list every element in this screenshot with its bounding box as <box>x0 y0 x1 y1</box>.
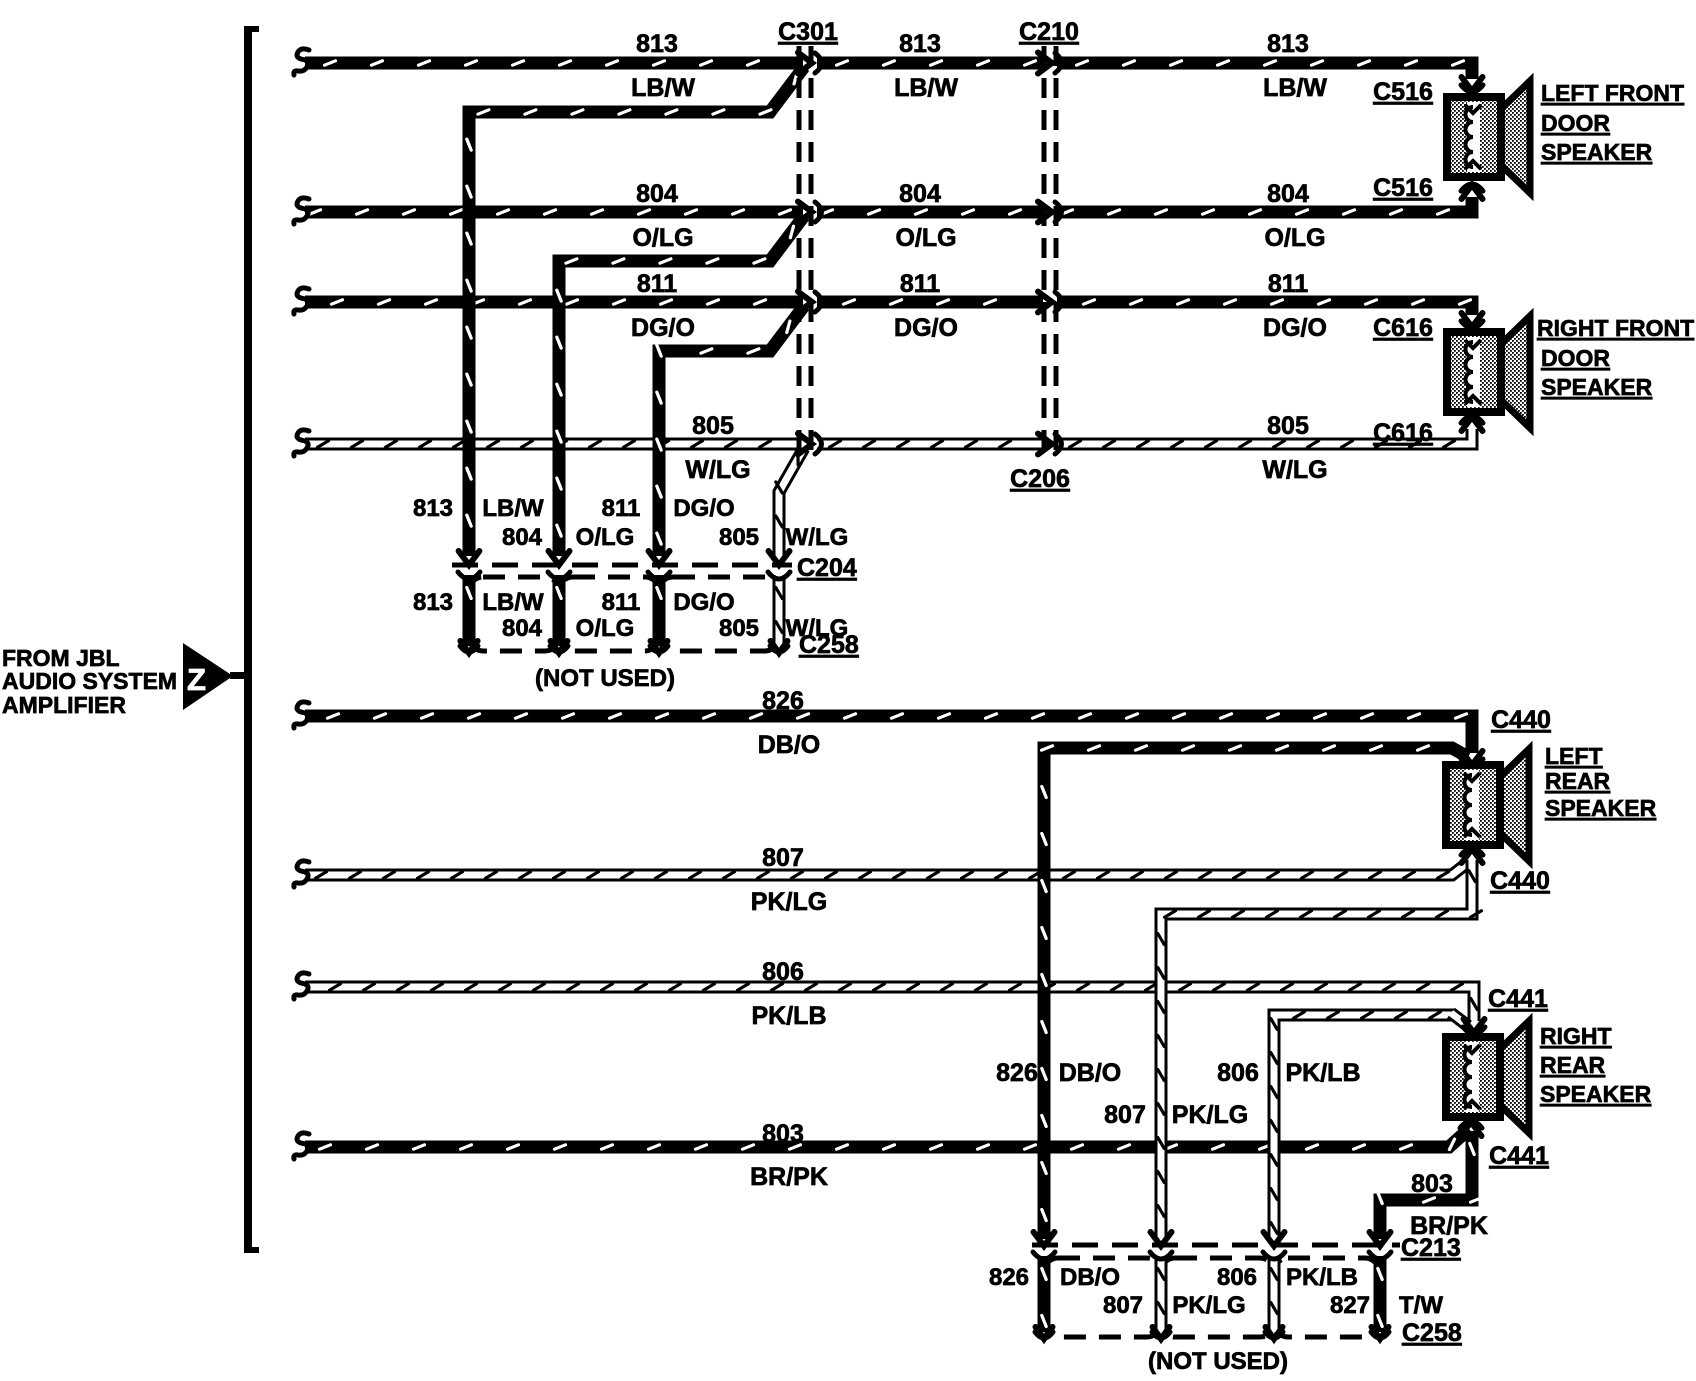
svg-text:T/W: T/W <box>1399 1292 1443 1319</box>
svg-text:LB/W: LB/W <box>894 74 958 102</box>
svg-text:(NOT USED): (NOT USED) <box>535 665 675 692</box>
svg-text:C440: C440 <box>1490 867 1550 895</box>
svg-text:REAR: REAR <box>1545 768 1611 794</box>
svg-text:DG/O: DG/O <box>673 495 734 522</box>
svg-text:SPEAKER: SPEAKER <box>1541 139 1653 165</box>
svg-text:O/LG: O/LG <box>895 224 956 252</box>
svg-text:811: 811 <box>602 495 641 522</box>
svg-text:807: 807 <box>762 844 804 872</box>
svg-text:C210: C210 <box>1019 18 1079 46</box>
svg-text:PK/LG: PK/LG <box>751 888 827 916</box>
svg-text:O/LG: O/LG <box>576 524 635 551</box>
svg-text:826: 826 <box>989 1264 1029 1291</box>
svg-text:813: 813 <box>636 30 678 58</box>
svg-text:804: 804 <box>502 615 543 642</box>
svg-text:806: 806 <box>1217 1264 1257 1291</box>
svg-text:813: 813 <box>899 30 941 58</box>
svg-text:PK/LB: PK/LB <box>752 1002 827 1030</box>
svg-text:LB/W: LB/W <box>1263 74 1327 102</box>
svg-text:PK/LB: PK/LB <box>1286 1059 1361 1087</box>
svg-text:O/LG: O/LG <box>1264 224 1325 252</box>
svg-text:DB/O: DB/O <box>1060 1264 1120 1291</box>
svg-text:DG/O: DG/O <box>894 314 958 342</box>
svg-text:803: 803 <box>762 1120 804 1148</box>
svg-text:BR/PK: BR/PK <box>750 1163 828 1191</box>
svg-text:827: 827 <box>1330 1292 1370 1319</box>
svg-text:DB/O: DB/O <box>1059 1059 1122 1087</box>
svg-text:C204: C204 <box>797 554 857 582</box>
svg-text:DOOR: DOOR <box>1541 110 1610 136</box>
svg-text:DG/O: DG/O <box>1263 314 1327 342</box>
svg-text:W/LG: W/LG <box>685 456 750 484</box>
svg-text:806: 806 <box>762 958 804 986</box>
svg-text:811: 811 <box>1268 270 1308 298</box>
svg-text:AMPLIFIER: AMPLIFIER <box>2 692 126 718</box>
svg-text:C258: C258 <box>1402 1319 1462 1347</box>
svg-text:DG/O: DG/O <box>631 314 695 342</box>
svg-text:811: 811 <box>900 270 940 298</box>
svg-text:DG/O: DG/O <box>673 589 734 616</box>
svg-text:C616: C616 <box>1373 419 1433 447</box>
svg-text:DB/O: DB/O <box>758 731 821 759</box>
svg-text:804: 804 <box>1267 180 1309 208</box>
svg-text:C616: C616 <box>1373 314 1433 342</box>
svg-text:806: 806 <box>1217 1059 1259 1087</box>
svg-text:AUDIO SYSTEM: AUDIO SYSTEM <box>2 668 177 694</box>
svg-text:SPEAKER: SPEAKER <box>1541 374 1653 400</box>
svg-text:SPEAKER: SPEAKER <box>1545 795 1657 821</box>
svg-text:804: 804 <box>899 180 941 208</box>
svg-text:W/LG: W/LG <box>786 524 849 551</box>
svg-text:PK/LB: PK/LB <box>1286 1264 1358 1291</box>
svg-text:805: 805 <box>1267 412 1309 440</box>
svg-text:C258: C258 <box>799 631 859 659</box>
svg-text:813: 813 <box>413 495 453 522</box>
svg-text:803: 803 <box>1411 1170 1453 1198</box>
svg-text:805: 805 <box>692 412 734 440</box>
svg-text:C206: C206 <box>1010 465 1070 493</box>
svg-text:PK/LG: PK/LG <box>1172 1292 1245 1319</box>
svg-text:DOOR: DOOR <box>1541 345 1610 371</box>
svg-text:813: 813 <box>413 589 453 616</box>
svg-text:LB/W: LB/W <box>482 495 544 522</box>
svg-text:C440: C440 <box>1491 706 1551 734</box>
svg-text:O/LG: O/LG <box>632 224 693 252</box>
svg-text:Z: Z <box>187 662 206 697</box>
svg-text:805: 805 <box>719 524 759 551</box>
svg-text:C213: C213 <box>1401 1234 1461 1262</box>
svg-text:805: 805 <box>719 615 759 642</box>
svg-text:RIGHT: RIGHT <box>1540 1023 1612 1049</box>
svg-text:804: 804 <box>502 524 543 551</box>
svg-text:C441: C441 <box>1488 985 1548 1013</box>
svg-text:C516: C516 <box>1373 174 1433 202</box>
svg-text:(NOT USED): (NOT USED) <box>1148 1348 1288 1375</box>
svg-text:813: 813 <box>1267 30 1309 58</box>
svg-text:LEFT: LEFT <box>1545 743 1603 769</box>
svg-text:RIGHT FRONT: RIGHT FRONT <box>1537 315 1694 341</box>
svg-text:807: 807 <box>1103 1292 1143 1319</box>
svg-text:807: 807 <box>1104 1101 1146 1129</box>
svg-text:811: 811 <box>637 270 677 298</box>
svg-text:W/LG: W/LG <box>1262 456 1327 484</box>
svg-text:PK/LG: PK/LG <box>1172 1101 1248 1129</box>
svg-text:C441: C441 <box>1489 1142 1549 1170</box>
svg-text:C301: C301 <box>778 18 838 46</box>
svg-text:826: 826 <box>996 1059 1038 1087</box>
svg-text:LB/W: LB/W <box>482 589 544 616</box>
svg-text:826: 826 <box>762 687 804 715</box>
svg-text:SPEAKER: SPEAKER <box>1540 1081 1652 1107</box>
svg-text:REAR: REAR <box>1540 1052 1606 1078</box>
svg-text:C516: C516 <box>1373 78 1433 106</box>
svg-text:804: 804 <box>636 180 678 208</box>
svg-text:LEFT FRONT: LEFT FRONT <box>1541 80 1684 106</box>
svg-text:O/LG: O/LG <box>576 615 635 642</box>
svg-text:811: 811 <box>602 589 641 616</box>
svg-text:LB/W: LB/W <box>631 74 695 102</box>
